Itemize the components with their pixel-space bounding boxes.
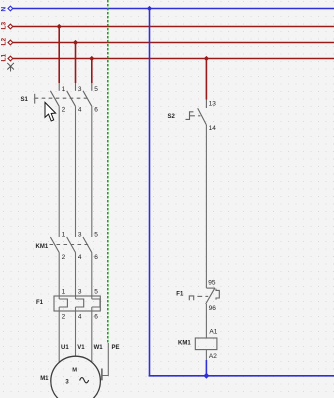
motor phase count 3 [65,380,69,386]
S1 pole 1 top stub [58,83,60,91]
motor AC sine symbol [80,378,89,383]
svg-text:V1: V1 [77,345,85,351]
svg-text:KM1: KM1 [36,244,49,250]
motor PE terminal bar [101,369,103,381]
svg-text:L3: L3 [1,22,8,30]
svg-text:3: 3 [78,232,82,239]
wire PE drop to motor [103,343,109,376]
terminal diamond L1 [8,56,13,61]
wire S1 pin 2 to KM1 pin 1 [58,106,60,237]
wire S1 pin 4 to KM1 pin 3 [75,106,77,237]
F1 pin 6 [94,314,98,321]
F1 NC link dash 1 [197,295,202,297]
svg-text:L2: L2 [1,38,8,46]
F1 NC seat bar [206,287,215,289]
F1 pin 4 [78,314,82,321]
wire L2 to S1 pin 3 [75,43,77,84]
F1 NC pin 96 [209,305,217,312]
wire L1 to S1 pin 5 [91,59,93,84]
KM1 mechanical link dashed [50,244,89,246]
S1 pole 3 blade [67,91,76,107]
motor M1 terminal W1 [94,345,104,351]
KM1 pin 4 [78,254,82,261]
motor M1 terminal U1 [61,345,69,351]
svg-text:6: 6 [94,107,98,114]
svg-text:1: 1 [62,289,66,296]
terminal diamond L3 [8,24,13,29]
KM1 pole 1 blade [50,237,59,253]
label KM1 [36,244,49,250]
label L1 [1,54,8,62]
svg-text:3: 3 [78,86,82,93]
switch S1 (3-pole) [35,83,92,106]
svg-text:F1: F1 [176,291,184,297]
node on L1 feeding control branch [204,56,209,61]
wire KM1 pin 2 to F1 pin 1 [58,253,60,300]
S2 top stub [205,100,207,109]
svg-text:KM1: KM1 [178,341,191,347]
node on L2 feeding S1 pole 3 [73,40,78,45]
F1 element pole 3 [76,299,84,307]
svg-text:6: 6 [94,254,98,261]
svg-text:5: 5 [94,86,98,93]
KM1 pin 2 [62,254,66,261]
S1 pin 5 [94,86,98,93]
svg-text:A1: A1 [209,329,217,336]
S1 pole 1 blade [50,91,59,107]
label S2 [168,114,176,120]
F1 NC trip hook [216,289,219,300]
S2 blade [198,108,207,125]
svg-text:M1: M1 [40,376,49,382]
label N [1,7,8,12]
label F1 aux [176,291,184,297]
F1 NC blade [206,288,215,304]
S1 pole 5 top stub [91,83,93,91]
wire F1 pin 2 to motor U1 [58,307,60,363]
label M1 [40,376,49,382]
S1 pin 6 [94,107,98,114]
node on L3 feeding S1 pole 1 [57,24,62,29]
svg-text:3: 3 [78,289,82,296]
svg-text:PE: PE [112,345,120,351]
svg-text:M: M [72,367,77,373]
F1 NC pin 95 [208,279,216,286]
net L1 bus line [13,58,334,60]
S1 pole 3 top stub [75,83,77,91]
KM1 pin 1 [62,232,66,239]
motor letter M [72,367,77,373]
pushbutton S2 [186,100,207,125]
wire KM1 coil A2 to N blue [205,360,207,376]
wire KM1 coil A2 stub grey [205,350,207,360]
KM1 coil A1 pin label [209,329,217,336]
svg-text:1: 1 [62,232,66,239]
label S1 [21,97,29,103]
KM1 pin 6 [94,254,98,261]
wire S2 pin 14 to F1 NC pin 95 [205,125,207,288]
S2 actuator link [190,115,195,117]
svg-text:2: 2 [62,254,66,261]
svg-text:1: 1 [62,86,66,93]
svg-text:4: 4 [78,254,82,261]
wire S1 pin 6 to KM1 pin 5 [91,106,93,237]
S1 pin 2 [62,107,66,114]
net L3 bus line [13,26,334,28]
S2 pin 14 [209,125,217,132]
wire L3 to S1 pin 1 [58,27,60,84]
terminal diamond N [8,6,13,11]
KM1 coil A2 pin label [209,353,217,360]
F1 pin 1 [62,289,66,296]
S1 actuator bar [34,94,36,104]
svg-text:13: 13 [209,101,217,108]
svg-text:2: 2 [62,107,66,114]
net L2 bus line [13,42,334,44]
svg-text:6: 6 [94,314,98,321]
svg-text:2: 2 [62,314,66,321]
S2 actuator [186,112,194,120]
net N bus line [13,8,334,10]
svg-text:W1: W1 [94,345,104,351]
thermal overload relay F1 [54,296,100,311]
wire F1 NC pin 96 to KM1 coil A1 [205,304,207,338]
svg-text:5: 5 [94,232,98,239]
svg-text:N: N [1,7,8,12]
F1 NC link dash 2 [205,295,208,297]
S1 pole 5 blade [83,91,92,107]
svg-text:4: 4 [78,314,82,321]
label KM1 coil [178,341,191,347]
svg-text:96: 96 [209,305,217,312]
KM1 pin 5 [94,232,98,239]
svg-text:S2: S2 [168,114,176,120]
svg-text:U1: U1 [61,345,69,351]
F1 auxiliary NC contact [189,288,219,304]
wire N bottom run [149,375,334,377]
F1 pin 2 [62,314,66,321]
S1 mechanical link dashed [35,97,89,99]
motor M1 terminal V1 [77,345,85,351]
wire KM1 pin 4 to F1 pin 3 [75,253,77,300]
node on N feeding control branch [147,6,152,11]
KM1 pole 5 blade [83,237,92,253]
terminal diamond L2 [8,40,13,45]
svg-text:A2: A2 [209,353,217,360]
F1 element pole 5 [92,299,100,307]
S2 pin 13 [209,101,217,108]
svg-text:95: 95 [208,279,216,286]
svg-text:5: 5 [94,289,98,296]
svg-text:L1: L1 [1,54,8,62]
S1 pin 3 [78,86,82,93]
F1 element pole 1 [59,299,67,307]
wire F1 pin 6 to motor W1 [91,307,93,363]
PE net green dashed line [107,0,109,343]
F1 body box [54,296,100,311]
KM1 pin 3 [78,232,82,239]
insertion marker X [7,63,14,72]
svg-text:S1: S1 [21,97,29,103]
node on L1 feeding S1 pole 5 [89,56,94,61]
wire F1 pin 4 to motor V1 [75,307,77,357]
motor M1 body circle [51,356,101,398]
F1 pin 5 [94,289,98,296]
S1 pin 4 [78,107,82,114]
mouse cursor [45,102,56,121]
KM1 pole 3 blade [67,237,76,253]
wire N drop vertical [149,9,151,376]
svg-text:4: 4 [78,107,82,114]
label F1 [36,300,44,306]
F1 NC actuator [189,296,193,300]
wire L1 to S2 pin 13 [205,59,207,100]
motor M1 terminal PE [112,345,120,351]
S1 pin 1 [62,86,66,93]
svg-text:14: 14 [209,125,217,132]
F1 pin 3 [78,289,82,296]
contactor KM1 main contacts [50,237,92,253]
label L3 [1,22,8,30]
wire KM1 pin 6 to F1 pin 5 [91,253,93,300]
svg-text:F1: F1 [36,300,44,306]
label L2 [1,38,8,46]
node KM1 coil A2 to N [203,373,209,379]
contactor coil KM1 [195,338,217,350]
S2 actuator link dash [198,115,200,117]
